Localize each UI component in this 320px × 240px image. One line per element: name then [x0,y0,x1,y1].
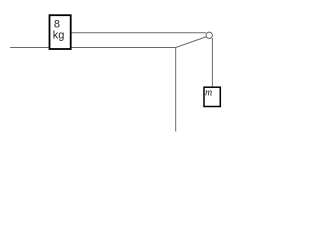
wire: table surface right of block [72,47,177,49]
svg-text:kg: kg [53,29,65,41]
wire: vertical string from pulley to mass m [211,38,213,87]
svg-text:m: m [205,88,212,99]
pulley [206,32,212,38]
block 8 kg [50,15,71,49]
wire: table front edge vertical [175,48,177,132]
wire: table surface left of block [10,47,49,49]
wire: pulley support bracket diagonal [176,37,207,48]
mass m [204,87,220,106]
wire: horizontal string from block to pulley [72,32,207,34]
